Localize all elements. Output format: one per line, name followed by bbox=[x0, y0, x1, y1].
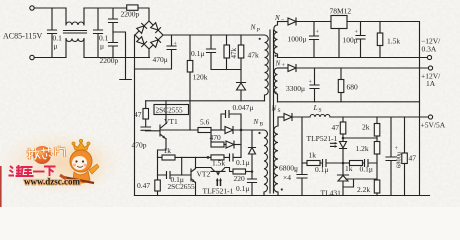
capacitor C10 0.1u row bbox=[224, 154, 241, 161]
wire VT1 emitter column bbox=[157, 157, 159, 175]
capacitor C1 0.1u line input bbox=[48, 8, 57, 58]
diode D7 bbox=[224, 141, 234, 148]
transformer T1 phase dot NB bbox=[258, 132, 260, 134]
capacitor C3 2200p Y-cap upper bbox=[109, 8, 118, 32]
capacitor C12 0.1u opto bbox=[248, 172, 257, 196]
wire VT2 collector up bbox=[195, 157, 197, 168]
wire AC top rail mid bbox=[84, 7, 127, 9]
capacitor C7 0.1u snubber bbox=[207, 35, 242, 70]
wire -12V rail right bbox=[347, 22, 420, 196]
wire +5V rail to inductor bbox=[292, 116, 310, 118]
capacitor C4 2200p Y-cap lower bbox=[109, 32, 118, 58]
resistor R3 47k snubber bbox=[240, 35, 242, 45]
transformer T1 primary winding Np bbox=[265, 35, 269, 101]
junction node base row bbox=[240, 129, 243, 132]
common-mode choke L1 bottom winding bbox=[66, 39, 84, 58]
capacitor C15 3300u bbox=[310, 68, 319, 102]
resistor R5 5.6 bbox=[198, 128, 211, 133]
capacitor C8 470p speedup bbox=[141, 119, 151, 131]
resistor R16 2k bbox=[376, 117, 378, 124]
optocoupler LED arrows bbox=[331, 143, 336, 146]
regulator U1 78M12 bbox=[331, 16, 347, 29]
transformer T1 core bbox=[270, 30, 274, 193]
resistor R7 1k VT1 emitter bbox=[158, 156, 163, 158]
red scan edge line bbox=[0, 166, 2, 207]
bridge diode D3 bottom-left bbox=[137, 37, 147, 47]
wire AC bottom rail right bbox=[84, 57, 150, 59]
resistor R11 1.5k bbox=[379, 22, 381, 34]
wire divider column bbox=[376, 154, 378, 180]
resistor R4 47 base bbox=[145, 101, 147, 109]
capacitor C16 6800u x4 bbox=[297, 117, 307, 196]
diode D6 base drive bbox=[225, 127, 233, 134]
optocoupler TLP521-1 LED bbox=[340, 142, 347, 164]
wire bottom rail to bridge bottom vertex bbox=[148, 49, 150, 58]
inductor LS bbox=[310, 115, 330, 118]
resistor R1 120k startup bbox=[189, 35, 191, 61]
transformer T1 secondary winding NS bbox=[274, 118, 278, 196]
capacitor C18 0.1u comp right bbox=[363, 160, 378, 167]
wire row1 to row2 drop bbox=[210, 130, 212, 142]
wire AC top rail left bbox=[34, 7, 66, 9]
label box 2SC2555 bbox=[154, 105, 189, 115]
wire LED to divider bbox=[343, 137, 377, 139]
junction node comp row bbox=[342, 162, 345, 165]
diode D9 rectifier -12V bbox=[288, 18, 296, 25]
junction node 1.5k row bbox=[207, 156, 210, 159]
transformer T1 phase dot N-minus bbox=[275, 55, 277, 57]
wire diode to NB winding bbox=[233, 129, 264, 131]
capacitor C2 0.1u line filter bbox=[94, 8, 103, 58]
wire diode D7 to column bbox=[234, 144, 241, 146]
wire VT2 base drop bbox=[181, 157, 183, 175]
wire DC+ bus to primary winding bbox=[163, 34, 265, 36]
resistor R14 1k comp left bbox=[302, 162, 307, 164]
common-mode choke L1 core bbox=[64, 31, 87, 34]
capacitor C13 1000u bbox=[310, 22, 319, 58]
bridge diode D4 bottom-right bbox=[151, 37, 161, 47]
capacitor C19 6800u output bbox=[386, 117, 396, 196]
bridge rectifier frame bbox=[135, 21, 163, 49]
wire column node to 1.5k row bbox=[240, 130, 242, 157]
wire +12V rail left bbox=[278, 67, 289, 69]
optocoupler TLF521-1 phototransistor bbox=[196, 168, 234, 172]
transistor VT2 2SC2655 bbox=[191, 169, 196, 183]
wire AC bottom rail left bbox=[34, 57, 66, 59]
resistor R2 47k snubber bbox=[226, 35, 228, 45]
wire 5.6 to diode bbox=[211, 129, 225, 131]
watermark orange ball bbox=[0, 0, 1, 1]
wire VT1 collector to rail bbox=[165, 101, 167, 124]
diode D10 rectifier +12V bbox=[288, 65, 296, 72]
capacitor C14 100u bbox=[356, 22, 365, 58]
diode D11 rectifier +5V bbox=[284, 114, 292, 121]
capacitor C6 470u bulk bbox=[135, 35, 177, 69]
resistor R8 1.5k bbox=[211, 155, 224, 160]
input terminal top bbox=[30, 6, 34, 10]
wire top rail to bridge bbox=[138, 8, 149, 21]
wire common return line bbox=[278, 57, 428, 59]
wire 1k row bbox=[175, 156, 211, 158]
junction node opto column bbox=[251, 170, 254, 173]
resistor R15 1k comp right bbox=[343, 162, 350, 164]
transformer T1 phase dot N-plus bbox=[275, 91, 277, 93]
capacitor C11 0.1u VT2 base bbox=[158, 172, 192, 179]
junction node cathode row bbox=[342, 137, 345, 140]
wire DC- column to bottom rail bbox=[134, 35, 136, 196]
wire +12V rail right bbox=[296, 67, 428, 69]
resistor R12 680 bbox=[340, 68, 342, 80]
resistor R17 1.2k bbox=[376, 136, 378, 142]
transformer T1 phase dot NS bbox=[281, 188, 283, 190]
shunt regulator U2 TL431 bbox=[338, 175, 349, 196]
resistor R13 47 opto feed bbox=[342, 117, 344, 122]
resistor R6 470 bbox=[211, 142, 224, 147]
wire TL431 ref bbox=[343, 179, 377, 187]
wire -12V rail left bbox=[278, 21, 289, 23]
wire +5V rail right bbox=[330, 116, 428, 118]
optocoupler light arrows bbox=[217, 181, 220, 186]
resistor R18 2.2k bbox=[374, 180, 380, 193]
wire 220 to column bbox=[246, 171, 253, 173]
wire TL431 cathode bbox=[342, 163, 344, 174]
wire VT1 emitter down bbox=[158, 139, 167, 158]
resistor R10 220 bbox=[233, 169, 246, 174]
regulator U1 ground pin bbox=[338, 29, 340, 58]
svg-text:www.dzsc.com: www.dzsc.com bbox=[24, 177, 80, 187]
transformer T1 secondary winding N-minus bbox=[274, 22, 278, 58]
bridge diode D1 top-left bbox=[137, 23, 147, 33]
capacitor C9 0.047u across bbox=[221, 111, 241, 131]
wire primary ground bottom rail bbox=[135, 195, 430, 197]
output terminal +5V bbox=[428, 115, 432, 119]
ground chassis stub bbox=[113, 32, 131, 80]
transistor VT1 2SC2555 bbox=[146, 124, 166, 139]
resistor R19 47 output bbox=[404, 117, 406, 153]
transformer T1 secondary winding N-plus bbox=[274, 68, 277, 102]
wire VT2 emitter to ground bbox=[195, 182, 197, 195]
common-mode choke L1 top winding bbox=[66, 8, 84, 25]
transformer T1 feedback winding NB bbox=[264, 130, 267, 196]
wire -12V rail to regulator bbox=[296, 21, 331, 23]
transformer T1 phase dot Np bbox=[259, 38, 261, 40]
diode D8 feedback bbox=[249, 130, 256, 172]
capacitor C5 2200p box across line bbox=[126, 7, 128, 9]
bridge diode D2 top-right bbox=[151, 23, 161, 33]
capacitor C17 0.1u comp left bbox=[320, 160, 343, 167]
diode D5 snubber clamp bbox=[240, 70, 242, 83]
wire base row to 5.6 bbox=[160, 129, 198, 131]
wire collector rail bbox=[146, 100, 265, 102]
output terminal -12V bbox=[427, 55, 431, 59]
input terminal bottom bbox=[30, 55, 34, 59]
wire +12V return line bbox=[278, 101, 420, 103]
resistor R9 0.47 sense bbox=[157, 175, 159, 180]
wire +5V rail left bbox=[278, 116, 284, 118]
output terminal +12V bbox=[428, 66, 432, 70]
